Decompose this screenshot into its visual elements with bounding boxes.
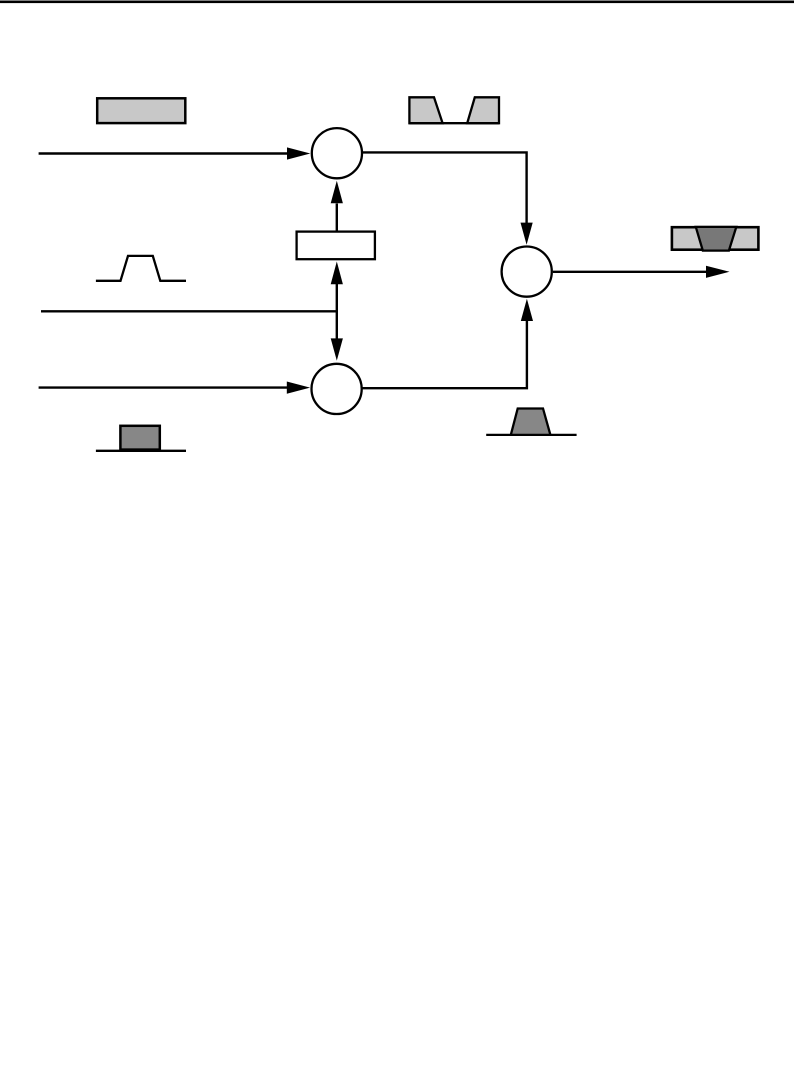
page top rule	[0, 1, 794, 4]
waveform icon: mask 1 notch (inverted trapezoid window)	[409, 97, 499, 123]
wire: M2 output to summer	[362, 321, 527, 388]
arrowhead into summer S1 top	[521, 223, 533, 245]
waveform icon: input 1 constant signal (gray bar)	[97, 98, 185, 123]
waveform icon: control trapezoid pulse (outline)	[96, 256, 186, 281]
wire: input 3	[39, 386, 289, 388]
wire: output	[553, 271, 707, 273]
arrowhead output	[706, 266, 730, 278]
wire: M1 output to summer	[362, 152, 527, 223]
arrowhead into multiplier M1	[287, 147, 310, 159]
gain block G1	[297, 232, 375, 260]
arrowhead into M2	[287, 382, 310, 394]
wire: input 1	[39, 152, 289, 154]
arrowhead into summer S1 bottom	[521, 299, 533, 321]
multiplier node M2	[312, 364, 362, 414]
multiplier node M1	[312, 128, 362, 178]
waveform icon: output composite signal	[672, 227, 759, 251]
arrowhead into multiplier M2 top	[331, 338, 343, 360]
waveform icon: gated trapezoid pulse (dark)	[486, 409, 576, 435]
waveform icon: input 3 rectangular pulse (dark)	[96, 426, 186, 451]
summer node S1	[502, 247, 552, 297]
wire: input 2 (control)	[41, 310, 338, 312]
arrowhead into G1 bottom	[331, 262, 343, 285]
wire: control vertical line	[336, 284, 338, 341]
arrowhead into M1 bottom	[331, 181, 343, 203]
wire: G1 to M1	[336, 204, 338, 231]
